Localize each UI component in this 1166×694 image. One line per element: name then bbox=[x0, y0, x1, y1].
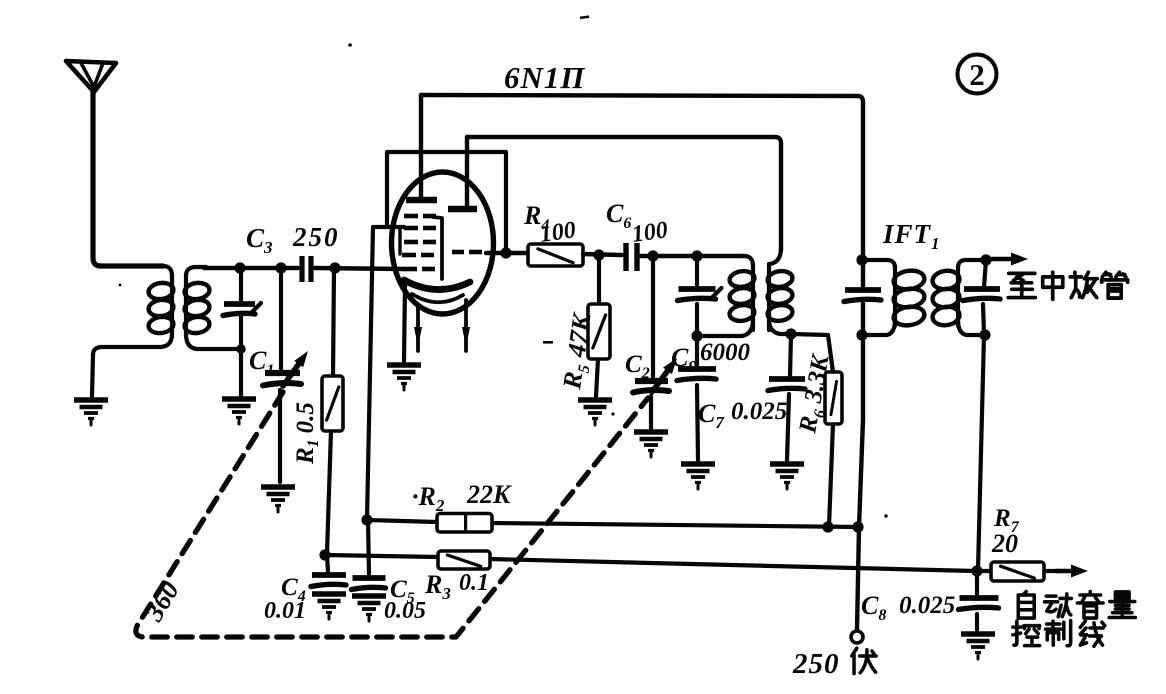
node R6 bottom bbox=[822, 521, 833, 532]
gang dashed link bbox=[136, 392, 648, 637]
node anode bbox=[500, 247, 511, 258]
node IFT1 top bbox=[856, 254, 867, 265]
svg-text:0.1: 0.1 bbox=[459, 570, 489, 596]
variable capacitor C1 bbox=[265, 370, 300, 376]
wire anode out bbox=[486, 251, 528, 255]
capacitor C4 bbox=[311, 575, 346, 587]
svg-text:C6: C6 bbox=[606, 199, 631, 232]
svg-text:R3: R3 bbox=[424, 570, 451, 603]
svg-text:0.025: 0.025 bbox=[731, 398, 787, 425]
svg-text:250: 250 bbox=[792, 648, 840, 680]
node trimmer top bbox=[234, 262, 245, 273]
node osc prim bottom bbox=[691, 330, 702, 341]
wire C1 branch bbox=[279, 268, 283, 369]
wire C7 branch bbox=[790, 334, 791, 377]
coil IFT1 primary bbox=[862, 260, 895, 268]
wire plate rail bbox=[421, 95, 863, 287]
capacitor C5 bbox=[352, 578, 386, 590]
capacitor C6 bbox=[623, 243, 628, 271]
wire plate2 riser bbox=[465, 137, 469, 205]
ground bbox=[578, 400, 612, 425]
svg-text:6N1Π: 6N1Π bbox=[504, 60, 586, 95]
ground bbox=[770, 464, 804, 489]
wire osc rail bbox=[467, 137, 781, 250]
arrow AVC bbox=[1056, 565, 1088, 578]
coil IFT1 secondary bbox=[958, 260, 986, 268]
svg-text:360: 360 bbox=[138, 575, 185, 626]
speck bbox=[119, 284, 122, 287]
capacitor IFT1 primary bbox=[844, 290, 881, 302]
ground bbox=[634, 432, 668, 457]
capacitor C3 bbox=[299, 256, 304, 282]
svg-text:C8: C8 bbox=[861, 591, 886, 624]
node R5 top bbox=[593, 249, 604, 260]
wire main rail bbox=[204, 266, 298, 270]
svg-text:C7: C7 bbox=[698, 399, 725, 432]
resistor R1 bbox=[322, 376, 343, 431]
svg-text:R10.5: R10.5 bbox=[292, 402, 322, 465]
node sec bottom bbox=[979, 329, 990, 340]
label zhi-zhong-fang-guan bbox=[1008, 273, 1035, 297]
wire R6 branch bbox=[791, 334, 833, 372]
resistor R2 bbox=[437, 514, 492, 533]
svg-text:0.025: 0.025 bbox=[899, 592, 955, 619]
node C2 top bbox=[647, 250, 658, 261]
wire plate1 riser bbox=[419, 95, 423, 197]
tube anode dashes bbox=[452, 250, 464, 255]
wire primary to ground bbox=[92, 347, 102, 396]
wire trimmer bbox=[239, 268, 243, 302]
svg-text:100: 100 bbox=[630, 217, 669, 248]
svg-text:C3: C3 bbox=[246, 223, 273, 257]
coil T1 secondary bbox=[186, 267, 206, 276]
speck bbox=[611, 412, 614, 415]
node R7 bbox=[971, 565, 982, 576]
wire B+ down bbox=[857, 303, 863, 630]
wire R2 line bbox=[367, 520, 437, 522]
ground bbox=[312, 594, 346, 619]
tube plate 1 bbox=[406, 197, 437, 204]
svg-text:·R2: ·R2 bbox=[412, 482, 445, 515]
node R2 left bbox=[361, 514, 372, 525]
svg-text:20: 20 bbox=[991, 529, 1018, 558]
wire R3 line bbox=[325, 555, 438, 557]
wire grid out bbox=[367, 227, 404, 519]
speck bbox=[348, 43, 352, 47]
speck bbox=[580, 15, 589, 19]
heater pin 1 bbox=[416, 306, 420, 351]
node osc sec bottom bbox=[785, 328, 796, 339]
wire osc padder bbox=[695, 256, 699, 288]
ground bbox=[352, 596, 386, 621]
svg-text:100: 100 bbox=[538, 217, 577, 248]
antenna bbox=[66, 61, 116, 92]
coil T2 primary bbox=[744, 256, 753, 266]
svg-text:6000: 6000 bbox=[700, 339, 751, 366]
svg-text:C1: C1 bbox=[249, 346, 274, 379]
capacitor C7 bbox=[768, 379, 805, 391]
svg-text:IFT1: IFT1 bbox=[882, 219, 941, 253]
tube heater bbox=[412, 294, 463, 302]
capacitor C9 bbox=[677, 369, 716, 381]
svg-text:0.05: 0.05 bbox=[384, 598, 426, 624]
ground bbox=[222, 399, 256, 424]
trimmer capacitor bbox=[223, 303, 261, 316]
resistor R5 bbox=[588, 304, 610, 359]
wire R1 branch bbox=[333, 268, 334, 376]
tube cathode bbox=[404, 280, 470, 290]
wire C8 branch bbox=[975, 571, 979, 597]
wire R5 branch bbox=[597, 255, 601, 304]
arrow to IF amp bbox=[986, 253, 1028, 266]
capacitor IFT1 secondary bbox=[963, 289, 1000, 301]
svg-text:C9: C9 bbox=[671, 343, 697, 376]
wire cathode bbox=[404, 284, 405, 361]
svg-text:2: 2 bbox=[969, 57, 985, 92]
badge 2 bbox=[958, 55, 997, 94]
tube grids bbox=[402, 216, 436, 269]
heater pin 2 bbox=[464, 300, 468, 351]
svg-text:250: 250 bbox=[292, 222, 340, 252]
node IFT1 bottom bbox=[856, 329, 867, 340]
node osc top bbox=[691, 250, 702, 261]
svg-text:0.01: 0.01 bbox=[264, 598, 306, 624]
speck bbox=[884, 514, 887, 517]
svg-text:22K: 22K bbox=[466, 480, 512, 509]
wire IFT1 sec bbox=[984, 260, 986, 287]
wire grid-anode loop bbox=[387, 152, 506, 252]
node C1 top bbox=[275, 262, 286, 273]
wire C2 branch bbox=[651, 256, 655, 377]
resistor R6 bbox=[825, 372, 842, 424]
wire R7 bbox=[977, 569, 991, 573]
svg-text:C2: C2 bbox=[625, 351, 650, 382]
ground bbox=[261, 487, 295, 512]
node R3 left bbox=[319, 549, 330, 560]
node secondary bottom bbox=[236, 344, 246, 354]
label kongzhixian bbox=[1013, 621, 1040, 646]
ground bbox=[961, 634, 995, 659]
tube U1 envelope bbox=[392, 172, 494, 314]
ground bbox=[387, 365, 421, 390]
tube cathode riser bbox=[433, 217, 442, 279]
wire AVC lead bbox=[978, 335, 984, 570]
wire C4 branch bbox=[327, 555, 328, 572]
node B+ R2 bbox=[852, 521, 863, 532]
terminal 250V bbox=[851, 631, 863, 643]
node R1 top bbox=[329, 262, 340, 273]
resistor R3 bbox=[438, 551, 490, 569]
resistor R4 bbox=[528, 244, 583, 266]
label zidong-yinliang bbox=[1018, 592, 1034, 619]
ground bbox=[74, 400, 108, 425]
resistor R7 bbox=[991, 562, 1044, 581]
wire C6-coil bbox=[641, 254, 744, 258]
capacitor C8 bbox=[959, 598, 999, 610]
variable capacitor C2 bbox=[635, 378, 668, 384]
node sec top bbox=[980, 254, 991, 265]
speck bbox=[543, 341, 553, 344]
tube plate 2 bbox=[448, 206, 477, 213]
coil T2 secondary bbox=[770, 248, 781, 264]
coil T1 primary bbox=[163, 266, 172, 276]
ground bbox=[681, 464, 715, 489]
wire C5 branch bbox=[368, 520, 369, 575]
padder capacitor bbox=[678, 288, 722, 301]
tube grid connector bbox=[398, 229, 401, 254]
wire R4-C6 bbox=[583, 254, 622, 255]
